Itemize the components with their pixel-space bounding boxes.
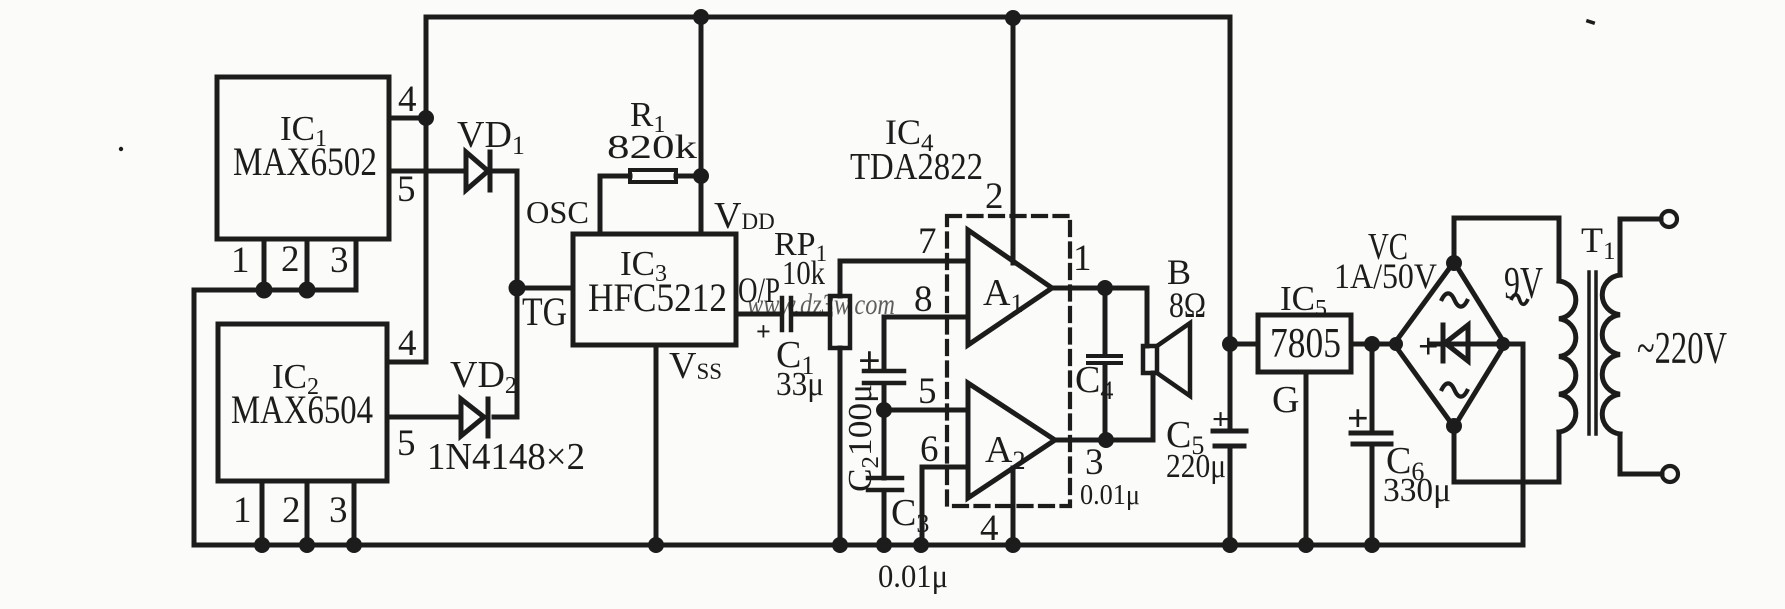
- wire IC2 pin 2 stub: [305, 481, 310, 545]
- wire bridge bottom vertex to T1 secondary bottom: [1454, 427, 1559, 482]
- speaker B horn: [1157, 323, 1190, 396]
- wire R1 right lead to VDD line: [676, 174, 701, 179]
- wire C6 bottom to ground bus: [1370, 446, 1375, 545]
- svg-text:3: 3: [330, 240, 349, 281]
- svg-text:OSC: OSC: [526, 194, 589, 230]
- wire IC1 pin 4 to supply drop: [389, 116, 426, 121]
- svg-text:+: +: [1347, 398, 1369, 440]
- svg-text:33μ: 33μ: [776, 366, 824, 403]
- speck top right: [1586, 19, 1596, 25]
- capacitor C2 plates: [864, 371, 904, 383]
- node pin6 ground: [913, 537, 929, 553]
- transformer T1 core: [1589, 272, 1596, 434]
- svg-text:6: 6: [920, 429, 939, 470]
- capacitor C6 plates: [1351, 433, 1391, 444]
- wire left supply drop to IC2 pin 4: [387, 17, 426, 362]
- svg-text:820k: 820k: [607, 129, 697, 166]
- svg-text:~220V: ~220V: [1637, 323, 1727, 373]
- node R1 right junction: [693, 168, 709, 184]
- wire A1 output pin 1 to speaker top: [1052, 288, 1147, 346]
- svg-text:8Ω: 8Ω: [1169, 285, 1206, 325]
- node bridge bottom vertex: [1446, 418, 1462, 434]
- op-amp A2: [968, 383, 1055, 498]
- svg-text:7805: 7805: [1270, 321, 1341, 367]
- transformer T1 secondary winding: [1559, 281, 1576, 432]
- svg-text:C2100μ: C2100μ: [842, 384, 884, 492]
- svg-text:HFC5212: HFC5212: [588, 275, 727, 320]
- wire C4 bottom to pin 3 net: [1103, 365, 1108, 440]
- node IC2 pin2 ground: [299, 537, 315, 553]
- node IC2 pin3 ground: [346, 537, 362, 553]
- tilde bottom bridge: [1441, 383, 1468, 396]
- IC1 MAX6502 body: [217, 77, 389, 239]
- node C3 ground: [876, 537, 892, 553]
- capacitor C3 plates: [868, 478, 902, 490]
- svg-text:7: 7: [918, 221, 937, 262]
- wire top bus right drop to C5: [1228, 17, 1233, 429]
- wire IC1 pins 1-3 header to ground bus: [194, 290, 356, 545]
- svg-text:4: 4: [398, 323, 417, 364]
- svg-text:10k: 10k: [782, 255, 825, 292]
- svg-text:0.01μ: 0.01μ: [1080, 480, 1140, 511]
- diode VD2: [461, 399, 488, 436]
- svg-text:2: 2: [281, 239, 300, 280]
- node pin4 ground: [1005, 537, 1021, 553]
- node C2/C3 pin5 junction: [876, 402, 892, 418]
- svg-text:G: G: [1272, 379, 1299, 421]
- svg-text:5: 5: [397, 423, 416, 464]
- wire IC3 VSS to ground bus: [654, 345, 659, 545]
- node top bus pin2 junction: [1005, 10, 1021, 26]
- node IC2 pin1 ground: [254, 537, 270, 553]
- node C5 ground: [1222, 537, 1238, 553]
- node C6 ground: [1364, 537, 1380, 553]
- wire IC1 pin 3 stub: [354, 239, 359, 290]
- wire bridge right vertex to ground bus: [1505, 344, 1523, 545]
- node bridge left vertex: [1389, 337, 1403, 351]
- svg-text:+: +: [1212, 403, 1229, 436]
- svg-text:TDA2822: TDA2822: [850, 146, 983, 188]
- svg-text:3: 3: [1085, 442, 1104, 483]
- wire ground bus: [194, 543, 1523, 548]
- wire IC2 pin 5 to VD2 anode: [387, 415, 461, 420]
- node bridge top vertex: [1446, 255, 1462, 271]
- tilde top bridge: [1441, 293, 1468, 306]
- node top bus VDD junction: [693, 9, 709, 25]
- capacitor C5 plates: [1213, 431, 1246, 446]
- wire node down to C3 top: [882, 410, 887, 478]
- tilde under 9V: [1511, 295, 1528, 305]
- wire IC4 pin 2 from top bus to A1: [1011, 17, 1016, 263]
- svg-text:5: 5: [397, 169, 416, 210]
- node pin1 output junction: [1097, 280, 1113, 296]
- svg-text:4: 4: [398, 79, 417, 120]
- wire VD1 cathode down to node TG: [492, 171, 517, 288]
- svg-text:330μ: 330μ: [1383, 472, 1451, 509]
- svg-text:0.01μ: 0.01μ: [878, 559, 948, 595]
- svg-text:+: +: [858, 338, 881, 383]
- op-amp A1: [968, 230, 1052, 345]
- wire IC2 pin 3 stub: [352, 481, 357, 545]
- wire IC1 pin 5 to VD1 anode: [389, 169, 466, 174]
- wire IC3 O/P to C1: [736, 312, 780, 317]
- wire IC5 output to bridge + vertex: [1351, 342, 1394, 347]
- svg-text:1: 1: [1073, 238, 1092, 279]
- wire IC1 pin 1 stub: [262, 239, 267, 290]
- node RP1 ground: [832, 537, 848, 553]
- svg-text:1: 1: [233, 490, 252, 531]
- svg-text:8: 8: [914, 279, 933, 320]
- wire node to IC4 pin 5: [884, 408, 968, 413]
- terminal bottom of 220V input: [1662, 466, 1678, 482]
- speaker B driver: [1143, 346, 1157, 373]
- wire C6 top branch: [1370, 344, 1375, 431]
- svg-text:MAX6504: MAX6504: [231, 387, 373, 432]
- wire C5 bottom to ground bus: [1228, 449, 1233, 545]
- wire IC4 pin 8 to C2 top: [884, 317, 968, 370]
- svg-text:1: 1: [231, 240, 250, 281]
- svg-text:5: 5: [918, 371, 937, 412]
- node IC1 pin2 junction: [299, 282, 316, 299]
- svg-text:TG: TG: [522, 289, 567, 334]
- wire RP1 bottom to ground bus: [838, 348, 843, 545]
- node TG junction: [509, 280, 526, 297]
- terminal top of 220V input: [1661, 211, 1677, 227]
- potentiometer RP1 body: [830, 296, 850, 348]
- capacitor C1 plates: [782, 298, 791, 330]
- wire A2 output pin 3 to speaker bottom: [1055, 373, 1153, 440]
- wire IC4 pin 4 from A2 to ground bus: [1011, 468, 1016, 545]
- IC3 HFC5212 body: [573, 234, 736, 345]
- wire T1 primary bottom to terminal: [1620, 434, 1662, 474]
- IC2 MAX6504 body: [218, 324, 387, 481]
- wire IC1 pin 2 stub: [305, 239, 310, 290]
- node C6 junction: [1364, 336, 1380, 352]
- svg-text:1N4148×2: 1N4148×2: [427, 436, 585, 478]
- svg-text:2: 2: [985, 176, 1004, 217]
- wire RP1 top to IC4 pin 7: [840, 261, 968, 296]
- svg-text:1A/50V: 1A/50V: [1334, 256, 1437, 296]
- wire bridge top vertex to T1 secondary top: [1454, 218, 1559, 281]
- wire IC2 pin 1 stub: [260, 481, 265, 545]
- svg-text:MAX6502: MAX6502: [233, 139, 377, 184]
- rectifier VC inner diode: [1430, 325, 1500, 361]
- svg-text:www.dz3w.com: www.dz3w.com: [747, 288, 895, 321]
- wire IC5 G pin to ground bus: [1304, 372, 1309, 545]
- wire T1 primary top to terminal: [1620, 219, 1661, 275]
- svg-text:220μ: 220μ: [1166, 448, 1226, 485]
- wire IC4 pin 6 to ground bus: [922, 467, 968, 545]
- wire R1 left lead down to IC3 OSC pin: [600, 176, 630, 234]
- wire C2 bottom to node pin5: [882, 385, 887, 410]
- IC4 TDA2822 dashed outline: [947, 216, 1070, 506]
- wire top supply bus: [426, 15, 1230, 20]
- IC5 7805 body: [1258, 315, 1351, 372]
- svg-text:2: 2: [282, 490, 301, 531]
- wire C5 node to IC5 input: [1230, 342, 1258, 347]
- wire VDD vertical from top bus to IC3: [699, 17, 704, 234]
- node G ground: [1298, 537, 1314, 553]
- speck top left: [119, 147, 123, 151]
- node pin3 output junction: [1098, 432, 1114, 448]
- wire node pin1 down to C4 top: [1103, 288, 1108, 354]
- node IC1 pin4 junction: [418, 110, 434, 126]
- node VSS ground: [648, 537, 664, 553]
- resistor R1 body: [630, 170, 676, 182]
- transformer T1 primary winding: [1602, 275, 1620, 434]
- node IC1 pin1 junction: [256, 282, 273, 299]
- wire C1 to RP1 wiper: [793, 312, 830, 317]
- svg-text:3: 3: [329, 490, 348, 531]
- svg-text:+: +: [756, 317, 771, 346]
- wire VD2 cathode up to node TG: [494, 290, 517, 417]
- wire C3 bottom to ground bus: [882, 491, 887, 545]
- svg-text:+: +: [1418, 326, 1439, 366]
- node C5 input junction: [1222, 336, 1238, 352]
- diode VD1: [466, 152, 490, 190]
- rectifier VC diamond: [1394, 262, 1505, 427]
- svg-text:4: 4: [980, 508, 999, 549]
- wire node TG to IC3 left edge: [517, 286, 573, 291]
- node bridge right vertex: [1496, 337, 1510, 351]
- capacitor C4 plates: [1088, 356, 1121, 363]
- svg-text:9V: 9V: [1504, 257, 1543, 308]
